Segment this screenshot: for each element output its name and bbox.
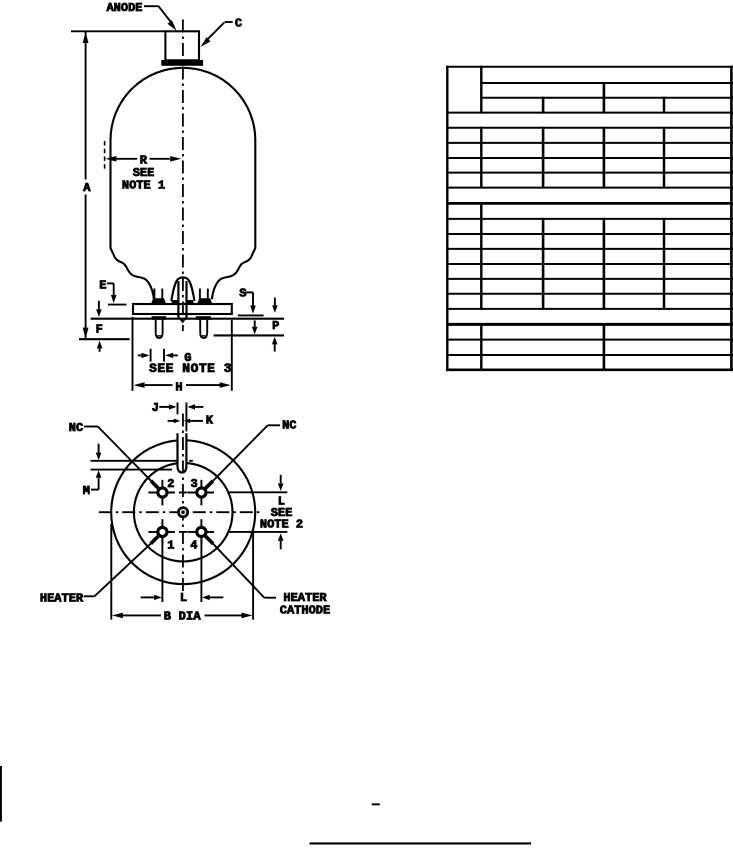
center stem arch — [171, 277, 194, 301]
svg-text:NOTE 2: NOTE 2 — [260, 518, 303, 532]
R dimension line — [105, 156, 181, 162]
plate top extension left — [108, 304, 127, 306]
svg-text:3: 3 — [190, 477, 197, 491]
svg-text:E: E — [99, 279, 106, 293]
pin 4 stub — [205, 535, 214, 544]
G arrows — [138, 353, 178, 358]
anode leader line — [144, 6, 177, 30]
HEATER CATHODE pointer — [213, 544, 276, 598]
center pin — [178, 508, 187, 517]
pin 1 crosshair — [148, 519, 175, 545]
svg-text:P: P — [272, 319, 279, 333]
svg-text:NC: NC — [69, 421, 83, 435]
pin seal bars — [152, 316, 167, 320]
svg-text:H: H — [175, 381, 182, 395]
glass pin seals — [151, 298, 213, 304]
keyway — [178, 433, 187, 472]
svg-text:ANODE: ANODE — [106, 1, 142, 15]
svg-text:L: L — [180, 591, 187, 605]
svg-text:CATHODE: CATHODE — [280, 603, 330, 617]
pin 4 (side view right) — [200, 320, 207, 338]
seating plane line — [91, 318, 284, 320]
pin 4 — [197, 527, 206, 536]
envelope dome — [111, 68, 256, 140]
pin 1 — [158, 527, 167, 536]
plate bottom extension right — [238, 314, 264, 316]
svg-text:1: 1 — [167, 538, 174, 552]
stem tube — [178, 281, 188, 322]
H dimension line — [134, 382, 231, 388]
S leader and arrow — [245, 292, 255, 313]
data table grid — [446, 66, 733, 371]
NC right pointer — [213, 425, 280, 481]
M extension lines — [91, 461, 193, 470]
row dashes — [179, 493, 187, 532]
B dimension line — [112, 613, 253, 619]
pin 3 crosshair — [187, 480, 214, 506]
J dimension arrows — [159, 404, 203, 409]
envelope right wall — [254, 140, 256, 249]
P lower arrow — [272, 337, 278, 352]
tube centerline — [182, 20, 184, 332]
pin 3 — [197, 488, 206, 497]
G extension ticks — [151, 349, 164, 362]
pin 2 crosshair — [148, 480, 175, 506]
L right arrows — [278, 475, 284, 550]
F lower arrow — [97, 341, 103, 352]
pin 3 stub — [205, 481, 213, 489]
base line left — [79, 338, 130, 340]
R dashed extension — [104, 141, 106, 172]
svg-text:B DIA: B DIA — [164, 610, 202, 624]
pin 2 stub — [151, 481, 159, 490]
label HEATER CATHODE — [280, 591, 330, 617]
envelope left wall — [109, 140, 111, 249]
base plate — [133, 304, 232, 314]
HEATER pointer — [84, 544, 151, 597]
left margin bar — [0, 766, 2, 822]
svg-text:C: C — [235, 17, 242, 31]
P upper arrow — [252, 320, 258, 334]
svg-text:M: M — [83, 484, 90, 498]
pin 4 crosshair — [187, 519, 214, 545]
B extension lines — [111, 524, 253, 620]
svg-text:4: 4 — [190, 538, 197, 552]
horizontal centerline — [99, 511, 261, 513]
small dash — [372, 803, 380, 805]
L right extension lines — [228, 492, 287, 532]
plate thickness arrow left — [96, 301, 102, 317]
NC left pointer — [84, 427, 151, 481]
S companion arrow — [272, 298, 278, 313]
outer circle — [111, 440, 255, 584]
svg-text:J: J — [152, 401, 159, 415]
anode cap — [165, 31, 199, 60]
pin 2 — [158, 488, 167, 497]
svg-text:K: K — [206, 414, 214, 428]
C leader line — [201, 22, 233, 47]
envelope lower right contour — [212, 248, 255, 299]
svg-text:2: 2 — [167, 477, 174, 491]
M arrows — [91, 444, 101, 490]
svg-text:S: S — [239, 287, 246, 301]
inner circle — [134, 463, 233, 562]
vertical centerline — [182, 414, 184, 592]
L bottom extension lines — [162, 540, 201, 603]
svg-text:SEE NOTE 3: SEE NOTE 3 — [149, 361, 232, 376]
pin lead wires — [154, 289, 207, 304]
pin 1 (side view left) — [156, 320, 163, 338]
svg-text:F: F — [96, 323, 103, 337]
svg-text:NC: NC — [282, 418, 296, 432]
J extension ticks — [178, 403, 187, 432]
pin tip line right — [214, 334, 284, 336]
cap flange — [161, 60, 203, 66]
K dimension arrows — [168, 419, 203, 424]
dimension A extension top — [71, 30, 165, 32]
svg-text:NOTE 1: NOTE 1 — [122, 179, 165, 193]
bottom rule — [310, 842, 532, 844]
E leader and arrow — [107, 283, 117, 303]
svg-text:A: A — [83, 181, 91, 195]
H extension lines — [133, 317, 232, 391]
svg-text:HEATER: HEATER — [40, 591, 84, 605]
pin 1 stub — [151, 535, 160, 544]
dimension A line — [83, 31, 89, 339]
envelope lower left contour — [111, 248, 154, 299]
L bottom arrows — [141, 595, 224, 600]
